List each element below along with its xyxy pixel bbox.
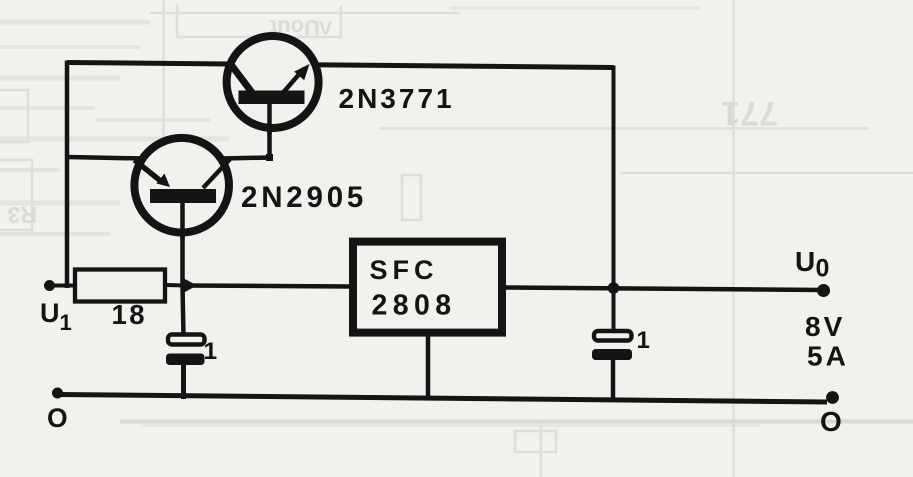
wire: left vertical rail [65,61,70,289]
label O right [820,406,842,437]
wire: bottom rail [58,395,827,403]
svg-text:2808: 2808 [372,290,457,322]
svg-text:0: 0 [816,255,830,283]
svg-text:771: 771 [721,94,778,132]
terminal O left dot [52,388,63,399]
node junction Q1 base corner [266,154,273,161]
label 2N2905 [241,181,367,214]
wire: SFC ground pin [426,334,431,400]
svg-text:8V: 8V [805,311,845,342]
wire: Q2 collector to Q1 base link [222,102,270,159]
svg-text:1: 1 [637,327,650,354]
terminal Uo output dot [817,284,830,297]
wire: SFC output to Uo terminal [505,288,822,291]
capacitor C2 (1uF) [592,331,632,360]
svg-text:1: 1 [204,338,218,365]
wire: left rail to Q2 base-left lead [67,157,143,159]
svg-text:SFC: SFC [370,255,439,285]
regulator IC1 SFC 2808 [353,242,502,333]
wire: C1 lower lead [181,363,186,399]
wire: node A to SFC input [184,286,350,287]
node A junction (resistor / Q2 base / SFC input) [184,279,197,293]
node B junction dot (output / C2) [608,282,620,294]
transistor Q1 2N3771 [227,36,319,134]
label O left [47,403,68,433]
ghost scan streak bottom [120,422,913,426]
label 8V [805,311,845,342]
resistor R1 18 ohm [75,270,165,302]
svg-text:R3: R3 [8,202,37,228]
label 18 [112,299,148,330]
svg-text:O: O [47,403,68,433]
svg-text:U: U [40,298,60,328]
label 5A [807,341,849,372]
wire: U1 terminal to resistor [48,284,76,288]
svg-text:2N3771: 2N3771 [339,83,455,114]
svg-text:O: O [820,406,842,437]
capacitor C1 (1uF) [166,335,205,366]
svg-text:5A: 5A [807,341,849,372]
svg-text:V: V [319,18,333,40]
wire: resistor to node A [166,283,186,288]
wire: C2 upper lead [612,288,616,332]
svg-text:18: 18 [112,299,148,330]
label U1 [40,298,72,335]
label C1 value 1 [204,338,218,365]
terminal O right dot [826,391,839,404]
transistor Q2 2N2905 [134,138,231,240]
wire: top rail from left corner to right corner [67,63,614,68]
label Uo [795,246,829,283]
svg-text:U: U [795,246,815,277]
wire: Q2 base lead down to node A and capacitor C1 [183,201,184,336]
svg-text:1: 1 [60,310,72,335]
wire: right vertical from top rail to output node [612,66,616,289]
label 2N3771 [339,83,455,114]
wire: C2 lower lead [611,357,616,401]
label C2 value 1 [637,327,650,354]
svg-text:2N2905: 2N2905 [241,181,367,214]
terminal U1 input dot [44,280,55,291]
